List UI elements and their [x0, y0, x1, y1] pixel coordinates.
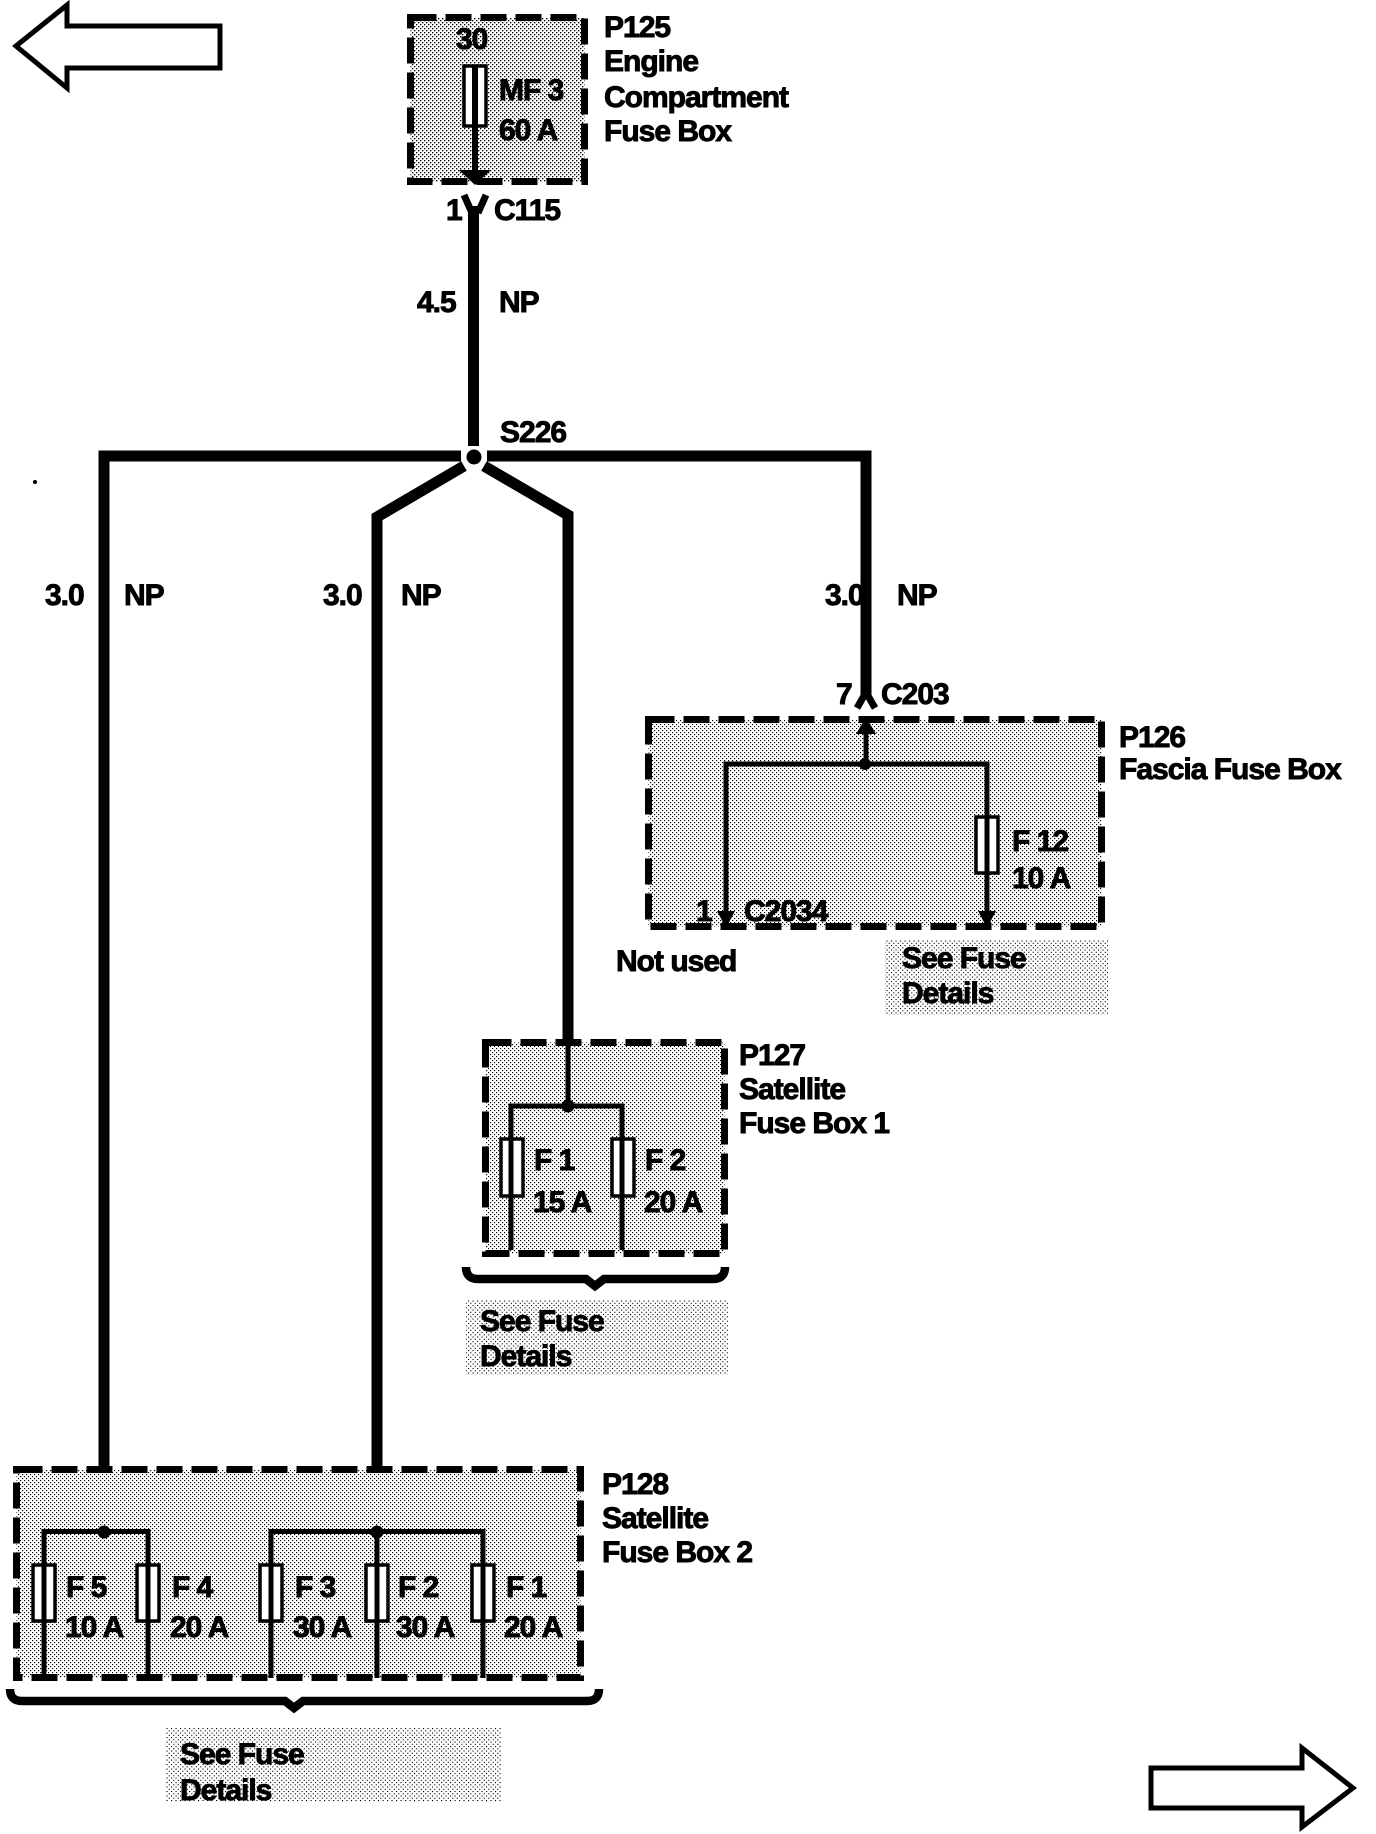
svg-text:Satellite: Satellite	[602, 1502, 708, 1535]
label 4.5	[417, 286, 456, 319]
svg-text:Engine: Engine	[604, 45, 698, 78]
svg-text:F 1: F 1	[534, 1144, 575, 1177]
svg-text:See Fuse: See Fuse	[180, 1738, 304, 1771]
label P125 Engine Compartment Fuse Box	[604, 11, 789, 148]
svg-text:See Fuse: See Fuse	[480, 1305, 604, 1338]
svg-text:Details: Details	[480, 1340, 572, 1373]
wire right branch to C203	[861, 451, 872, 696]
svg-text:F 3: F 3	[295, 1571, 336, 1604]
label F 12	[1012, 825, 1068, 858]
svg-text:S226: S226	[500, 416, 566, 449]
svg-text:20 A: 20 A	[504, 1611, 563, 1644]
fuse F1 P127	[501, 1104, 523, 1251]
wire C115 to S226, 4.5 NP	[468, 206, 479, 446]
wire P128 left horizontal	[44, 1529, 149, 1534]
svg-text:NP: NP	[401, 579, 441, 612]
label NP	[499, 286, 539, 319]
label 30	[456, 23, 488, 56]
wire P126 to C2034	[717, 762, 735, 929]
fuse box P125	[411, 18, 585, 182]
wire bus left segment	[99, 451, 462, 462]
fuse box P128	[17, 1470, 581, 1678]
svg-text:P128: P128	[602, 1468, 668, 1501]
svg-text:F 12: F 12	[1012, 825, 1068, 858]
page-link arrow right	[1151, 1748, 1353, 1827]
fuse F1 P128	[472, 1529, 494, 1678]
label S226	[500, 416, 566, 449]
node P128 middle junction	[371, 1526, 384, 1539]
connector C115 pin 1	[464, 195, 486, 213]
wire bus right segment	[487, 451, 872, 462]
svg-text:3.0: 3.0	[323, 579, 362, 612]
splice node S226	[467, 450, 482, 465]
wire P127 horizontal	[511, 1104, 622, 1109]
svg-text:15 A: 15 A	[533, 1186, 592, 1219]
svg-text:C203: C203	[881, 678, 949, 711]
node P128 left junction	[98, 1526, 111, 1539]
label 10 A	[65, 1611, 124, 1644]
svg-text:30 A: 30 A	[293, 1611, 352, 1644]
label 15 A	[533, 1186, 592, 1219]
svg-text:7: 7	[836, 678, 852, 711]
label 10 A	[1012, 862, 1071, 895]
label 7 C203	[836, 678, 949, 711]
svg-text:P125: P125	[604, 11, 670, 44]
svg-text:F 5: F 5	[66, 1571, 107, 1604]
page-link arrow left	[16, 5, 220, 88]
svg-text:F 2: F 2	[645, 1144, 686, 1177]
svg-text:20 A: 20 A	[170, 1611, 229, 1644]
svg-text:MF 3: MF 3	[499, 74, 564, 107]
fuse box P126	[649, 720, 1102, 927]
svg-text:NP: NP	[499, 286, 539, 319]
fuse MF 3	[459, 66, 491, 185]
svg-text:P127: P127	[739, 1039, 805, 1072]
svg-text:F 1: F 1	[506, 1571, 547, 1604]
svg-text:30: 30	[456, 23, 488, 56]
svg-text:20 A: 20 A	[644, 1186, 703, 1219]
svg-text:F 4: F 4	[172, 1571, 214, 1604]
svg-text:60 A: 60 A	[499, 114, 558, 147]
label 20 A	[170, 1611, 229, 1644]
svg-text:Fascia Fuse Box: Fascia Fuse Box	[1119, 753, 1342, 786]
svg-text:1: 1	[696, 895, 712, 928]
fuse F5 P128	[33, 1529, 55, 1678]
wire P128 middle horizontal	[271, 1529, 483, 1534]
svg-text:C2034: C2034	[744, 895, 829, 928]
svg-text:Fuse Box: Fuse Box	[604, 115, 732, 148]
label F 1	[506, 1571, 547, 1604]
wire P126 horizontal	[726, 762, 987, 767]
fuse F4 P128	[137, 1529, 159, 1678]
svg-text:F 2: F 2	[398, 1571, 439, 1604]
svg-text:NP: NP	[124, 579, 164, 612]
wire left branch to P128	[99, 451, 110, 1533]
label 3.0 NP right	[825, 579, 937, 612]
label 60 A	[499, 114, 558, 147]
svg-text:Compartment: Compartment	[604, 81, 789, 114]
fuse F12 wire	[976, 762, 998, 929]
label MF 3	[499, 74, 564, 107]
node P126 junction	[859, 758, 871, 770]
svg-text:Details: Details	[180, 1774, 272, 1807]
connector C203 pin 7	[857, 694, 875, 708]
label Not used	[616, 945, 736, 978]
svg-text:NP: NP	[897, 579, 937, 612]
svg-text:3.0: 3.0	[45, 579, 84, 612]
label 3.0 NP left	[45, 579, 164, 612]
fuse F2 P128	[366, 1532, 388, 1678]
label F 4	[172, 1571, 214, 1604]
label 3.0 NP middle	[323, 579, 441, 612]
svg-text:See Fuse: See Fuse	[902, 942, 1026, 975]
fuse F3 P128	[260, 1529, 282, 1678]
fuse F2 P127	[612, 1104, 634, 1251]
svg-text:Fuse Box 1: Fuse Box 1	[739, 1107, 889, 1140]
bracket P127	[466, 1267, 725, 1286]
wire middle branch to P128	[377, 466, 464, 1532]
label F 1	[534, 1144, 575, 1177]
svg-text:P126: P126	[1119, 721, 1185, 754]
label 1 C115	[446, 194, 560, 227]
label F 5	[66, 1571, 107, 1604]
svg-text:10 A: 10 A	[1012, 862, 1071, 895]
svg-text:C115: C115	[494, 194, 560, 227]
note See Fuse Details P126	[885, 940, 1108, 1015]
node P127 junction	[562, 1100, 575, 1113]
label P127 Satellite Fuse Box 1	[739, 1039, 889, 1140]
label F 2	[398, 1571, 439, 1604]
svg-text:1: 1	[446, 194, 462, 227]
wire P127 entry	[566, 1042, 571, 1106]
note See Fuse Details P128	[166, 1728, 501, 1807]
stray dot	[33, 480, 37, 484]
wire branch to P127	[484, 466, 568, 1040]
label 30 A	[396, 1611, 455, 1644]
svg-text:4.5: 4.5	[417, 286, 456, 319]
label F 3	[295, 1571, 336, 1604]
label 20 A	[644, 1186, 703, 1219]
label 30 A	[293, 1611, 352, 1644]
label P128 Satellite Fuse Box 2	[602, 1468, 752, 1569]
label 20 A	[504, 1611, 563, 1644]
bracket P128	[10, 1689, 599, 1708]
wire C203 into P126	[856, 717, 876, 764]
svg-text:Fuse Box 2: Fuse Box 2	[602, 1536, 752, 1569]
label F 2	[645, 1144, 686, 1177]
label 1 C2034	[696, 895, 829, 928]
label P126 Fascia Fuse Box	[1119, 721, 1342, 786]
svg-text:Not used: Not used	[616, 945, 736, 978]
svg-text:Details: Details	[902, 977, 994, 1010]
svg-text:10 A: 10 A	[65, 1611, 124, 1644]
svg-text:3.0: 3.0	[825, 579, 864, 612]
note See Fuse Details P127	[466, 1300, 729, 1375]
fuse box P127	[486, 1043, 725, 1254]
svg-text:Satellite: Satellite	[739, 1073, 845, 1106]
svg-text:30 A: 30 A	[396, 1611, 455, 1644]
